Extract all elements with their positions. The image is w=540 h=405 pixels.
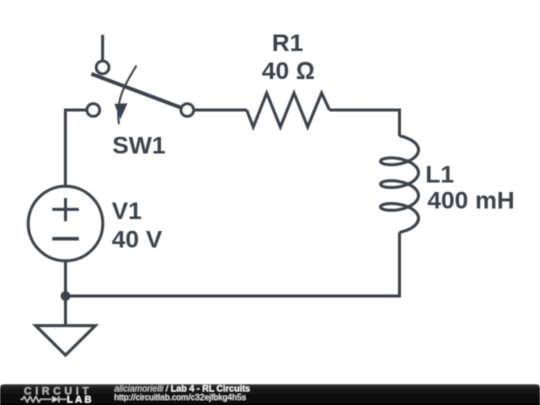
svg-text:http://circuitlab.com/c32ejfbk: http://circuitlab.com/c32ejfbkg4h5s (114, 392, 246, 402)
svg-text:R1: R1 (272, 30, 303, 57)
svg-text:L1: L1 (425, 161, 454, 188)
svg-text:400 mH: 400 mH (427, 188, 514, 215)
svg-text:SW1: SW1 (112, 133, 165, 160)
svg-text:V1: V1 (112, 198, 142, 225)
svg-text:40 V: 40 V (112, 227, 163, 254)
svg-text:40 Ω: 40 Ω (262, 58, 315, 85)
svg-text:LAB: LAB (67, 394, 94, 405)
